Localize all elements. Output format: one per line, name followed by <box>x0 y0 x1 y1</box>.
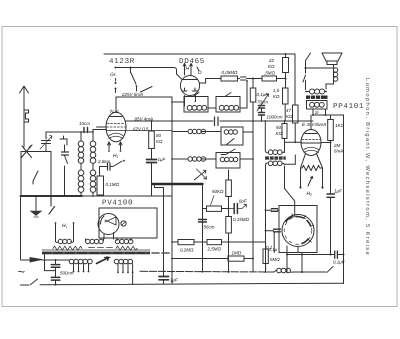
wire voice coil return <box>326 84 334 89</box>
wire ground bus <box>21 195 83 197</box>
svg-text:50: 50 <box>276 125 282 130</box>
svg-text:KΩ: KΩ <box>273 94 280 99</box>
wire AVC row upper <box>172 241 178 243</box>
wire 5M to node <box>277 78 286 80</box>
svg-text:H₁: H₁ <box>62 223 68 229</box>
capacitor socket left upper <box>266 209 280 212</box>
svg-text:2,8km: 2,8km <box>97 159 111 164</box>
wire left mains drop <box>20 196 22 259</box>
capacitor coupling on bus <box>215 117 219 126</box>
capacitor tone coupling <box>286 251 345 265</box>
box rectifier unit <box>99 208 157 238</box>
core IF hatched <box>265 156 286 159</box>
coil IF secondary lower <box>266 161 285 176</box>
svg-text:47: 47 <box>286 108 292 113</box>
wire right riser from top bus <box>294 54 296 105</box>
svg-text:E·30V35mA: E·30V35mA <box>302 122 326 127</box>
switch wave band lever <box>141 87 153 93</box>
switch band B <box>221 149 235 155</box>
speaker horn <box>322 53 342 65</box>
wire A2 to plate line <box>240 81 247 108</box>
wire tube E plate top <box>310 115 312 130</box>
svg-text:0,2MΩ: 0,2MΩ <box>180 248 194 253</box>
svg-text:N N: N N <box>110 109 119 115</box>
capacitor 1000cm <box>259 113 283 122</box>
capacitor variable tuning <box>40 132 52 152</box>
capacitor 1uF output <box>327 189 342 198</box>
box oscillator coil B2 <box>221 127 243 145</box>
pin heater tube N <box>108 142 123 159</box>
svg-text:50KΩ: 50KΩ <box>212 189 224 194</box>
wire B row links <box>172 131 253 134</box>
resistor 25M <box>207 240 222 252</box>
box oscillator coil C2 <box>216 153 240 169</box>
wire AVC riser down <box>252 102 254 272</box>
switch wave change <box>60 136 69 196</box>
resistor 0,15M vertical <box>226 217 250 273</box>
svg-text:1,5: 1,5 <box>273 88 280 93</box>
wire grid lines to coils <box>97 121 174 127</box>
capacitor heater bypass <box>100 163 114 170</box>
capacitor 1uF AF <box>159 277 178 284</box>
resistor 1M horizontal <box>171 241 254 261</box>
capacitor 1uF screen <box>147 149 166 197</box>
wire diode load to grid diagonal <box>285 166 295 217</box>
svg-text:4123R: 4123R <box>109 57 135 66</box>
svg-text:500cm: 500cm <box>60 271 74 276</box>
node anode circle <box>121 221 126 226</box>
resistor heater H2 zigzag <box>299 166 323 189</box>
svg-text:PV4100: PV4100 <box>102 199 133 208</box>
svg-text:56cm: 56cm <box>204 225 215 230</box>
resistor decoupling on AVC riser <box>250 79 256 103</box>
svg-text:KΩ: KΩ <box>286 114 293 119</box>
switch pickup selector <box>130 67 138 92</box>
wire HT return to bus <box>163 271 165 273</box>
svg-text:1000cm: 1000cm <box>267 115 283 120</box>
svg-text:H₁: H₁ <box>113 153 119 159</box>
capacitor socket left lower <box>266 229 281 252</box>
wire C row links <box>172 158 253 160</box>
capacitor line filter lower <box>51 277 60 280</box>
wire to 5M resistor <box>253 78 262 80</box>
switch wave trap <box>113 161 122 166</box>
svg-text:8μF: 8μF <box>239 199 247 204</box>
pin tube E legs <box>301 154 323 169</box>
coil filter choke on bus <box>274 268 302 273</box>
svg-text:1MΩ: 1MΩ <box>232 251 242 256</box>
wire coil to tube grid <box>93 130 107 133</box>
wire A1 to A2 <box>208 107 216 109</box>
ground chassis <box>31 196 42 217</box>
wire speaker feed <box>306 61 334 69</box>
svg-text:2M·: 2M· <box>333 143 342 148</box>
resistor 50K AF vertical <box>211 170 232 205</box>
capacitor trim after 0,05M <box>238 77 254 80</box>
wire antenna top row <box>46 131 93 133</box>
wire Gr to DD465 <box>116 68 182 80</box>
coil antenna primary lower <box>78 170 84 197</box>
svg-text:1μF: 1μF <box>334 189 342 194</box>
svg-text:0,1μF: 0,1μF <box>333 260 345 265</box>
wire DD465 plate to RC chain <box>200 79 222 84</box>
box detector socket <box>279 206 317 253</box>
coil heater H1 winding <box>55 222 75 244</box>
resistor 0,05M <box>221 70 238 81</box>
pin hum pot wiper arrow <box>308 177 313 187</box>
capacitor line filter upper <box>51 265 60 268</box>
wire main left riser <box>171 97 173 284</box>
wire IF bus with capacitor <box>126 120 313 122</box>
transformer core hatched <box>306 96 328 99</box>
resistor 5M vertical <box>263 242 280 273</box>
svg-text:225V 5mA: 225V 5mA <box>121 92 143 97</box>
fuse lightning arrester jog <box>24 110 29 122</box>
svg-text:H₂: H₂ <box>307 191 313 197</box>
resistor 47K vertical <box>286 105 298 123</box>
svg-text:0,05MΩ: 0,05MΩ <box>222 70 239 75</box>
resistor 80K screen <box>149 120 163 148</box>
transformer output secondary <box>307 101 328 110</box>
pin H heater arrows of DD465 <box>183 64 202 77</box>
svg-text:KΩ: KΩ <box>276 131 283 136</box>
box oscillator coil A2 <box>216 93 240 113</box>
wire filter caps vertical <box>55 260 57 285</box>
tube detector socket circle <box>282 214 314 247</box>
resistor 5M horizontal <box>262 71 277 82</box>
pin cathode leads DD465 <box>185 96 196 107</box>
coil voice coil <box>333 65 337 85</box>
wire socket risers <box>265 176 267 272</box>
label 2M 6mA <box>333 143 343 154</box>
transformer IF second primary <box>264 120 284 154</box>
potentiometer volume arrows <box>194 169 207 180</box>
coil antenna secondary upper <box>90 132 96 170</box>
coil oscillator B1 <box>186 129 206 133</box>
potentiometer antenna trimmer <box>21 145 32 158</box>
svg-text:H: H <box>186 66 190 72</box>
coil mains primary right <box>114 259 133 284</box>
svg-text:0,1MΩ: 0,1MΩ <box>106 182 120 187</box>
wire speaker to transformer <box>305 86 307 90</box>
resistor 0,2M AVC <box>178 240 194 253</box>
wire 47K to output tube line <box>294 123 296 143</box>
coil mains primary left <box>69 259 92 264</box>
pin voltage selector arrow mains <box>97 257 109 263</box>
tube PV4100 rectifier <box>98 214 119 235</box>
coil oscillator C1 <box>186 157 206 161</box>
wire 25M to 5M <box>222 241 266 243</box>
svg-text:PP4101: PP4101 <box>333 102 364 111</box>
switch mains <box>21 279 38 285</box>
node junction at 285 <box>285 78 287 80</box>
node Gr. pickup terminals <box>110 67 117 93</box>
svg-text:1μF: 1μF <box>170 278 178 283</box>
coil HT winding <box>115 239 133 244</box>
wire DD465 cathode tap <box>172 101 185 103</box>
capacitor 56cm <box>199 220 215 230</box>
wire grid line through tube <box>295 141 330 143</box>
svg-text:80: 80 <box>156 133 162 138</box>
svg-text:,5MΩ: ,5MΩ <box>264 71 276 76</box>
wire bus to switch <box>302 271 326 273</box>
svg-text:2i: 2i <box>314 110 320 115</box>
node junction B line <box>252 78 254 80</box>
box antenna coil unit <box>21 152 51 197</box>
svg-text:5MΩ: 5MΩ <box>270 257 280 262</box>
capacitor 10cm <box>79 121 90 133</box>
switch speaker plug lower <box>303 69 306 86</box>
resistor 1,5K vertical <box>273 79 288 105</box>
resistor coupling horizontal <box>203 206 229 211</box>
wire pot to AF riser <box>202 185 204 273</box>
transformer output primary <box>305 89 327 94</box>
svg-text:1μF: 1μF <box>158 157 166 162</box>
svg-text:62V 0,5: 62V 0,5 <box>133 127 149 132</box>
svg-text:6mA: 6mA <box>334 149 343 154</box>
svg-text:10cm: 10cm <box>79 121 90 126</box>
wire between AVC resistors <box>194 241 207 243</box>
switch earth selector <box>49 196 55 214</box>
svg-text:0,15MΩ: 0,15MΩ <box>233 217 250 222</box>
core power transformer <box>42 250 169 254</box>
wire 1,5K bottom to bus <box>284 104 286 121</box>
capacitor 0,1uF 70cm stack <box>257 92 269 112</box>
wire grid feed from diode load <box>285 141 296 143</box>
wire plate 225V <box>116 97 172 112</box>
resistor 1K grid stopper vertical <box>328 115 345 143</box>
wire bus AVC bottom <box>140 270 274 273</box>
wire IF secondary to cathode <box>284 155 295 164</box>
antenna <box>20 86 29 147</box>
potentiometer track thick <box>153 183 203 185</box>
coil rectifier filament winding <box>86 239 104 244</box>
resistor 0,1M vertical <box>97 167 120 197</box>
tube DD465 detector diode <box>180 76 199 96</box>
box oscillator coil A1 <box>184 93 208 113</box>
coil antenna primary upper <box>78 132 84 170</box>
node transformer taps <box>312 109 344 116</box>
wire bottom bus main <box>40 283 344 285</box>
switch speaker plug top <box>306 53 311 61</box>
svg-text:Gr.: Gr. <box>110 72 117 78</box>
coil antenna secondary lower <box>90 170 96 197</box>
svg-text:~: ~ <box>18 264 26 279</box>
pin rectifier leads <box>104 233 114 240</box>
wire socket box left leg <box>286 246 288 272</box>
wire right riser b <box>343 115 345 284</box>
tube N mixer pentode <box>106 112 172 142</box>
fuse mains <box>21 255 70 271</box>
svg-text:Lumophon, Brigant W, Wechselst: Lumophon, Brigant W, Wechselstrom, 5 Kre… <box>364 78 371 256</box>
wire socket bottom to bus <box>301 253 303 273</box>
resistor 22K vertical top <box>268 54 289 79</box>
wire top supply bus <box>104 53 295 55</box>
node junction AF <box>228 208 230 210</box>
wire right riser a <box>330 144 332 255</box>
resistor HT zigzag right <box>116 246 137 250</box>
switch inside antenna box <box>33 171 38 184</box>
switch tone bus <box>327 267 333 273</box>
resistor 50K diode load <box>276 120 288 152</box>
resistor HT zigzag left <box>53 246 82 250</box>
svg-text:KΩ: KΩ <box>268 64 275 69</box>
svg-text:KΩ: KΩ <box>156 139 163 144</box>
tube E output pentode <box>301 130 321 156</box>
wire tap riser mid <box>155 184 164 276</box>
svg-text:22: 22 <box>268 58 275 63</box>
capacitor 8uF electrolytic <box>229 199 247 214</box>
svg-text:2,5MΩ: 2,5MΩ <box>207 247 222 252</box>
